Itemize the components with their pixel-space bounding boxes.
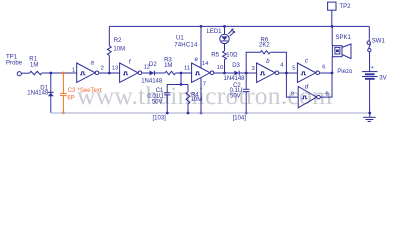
svg-text:*SeeText: *SeeText — [78, 88, 102, 94]
wire GND bottom rail — [51, 112, 370, 114]
diode D3 — [224, 63, 257, 82]
svg-text:R5: R5 — [211, 53, 219, 59]
svg-text:D2: D2 — [149, 62, 157, 68]
svg-text:+: + — [371, 65, 374, 71]
svg-text:10M: 10M — [113, 46, 125, 52]
svg-text:50V: 50V — [230, 93, 241, 99]
node junction battery rail — [368, 112, 371, 115]
svg-text:14: 14 — [202, 61, 209, 67]
resistor R6 — [246, 37, 286, 73]
capacitor C3 highlighted — [60, 72, 102, 115]
wire VCC top rail — [109, 25, 369, 27]
node junction TP2 rail — [331, 25, 334, 28]
capacitor C2 — [230, 73, 250, 113]
op-amp U1 gate c — [292, 58, 325, 83]
node junction R2 — [108, 72, 111, 75]
wire gate a to gate f — [99, 72, 120, 74]
svg-text:D3: D3 — [232, 63, 240, 69]
svg-text:13: 13 — [112, 66, 118, 72]
svg-text:11: 11 — [184, 65, 190, 71]
node junction piezo — [331, 72, 334, 75]
wire R3 to gate e — [176, 72, 192, 74]
op-amp U1 gate f — [112, 59, 150, 83]
svg-text:1N4148: 1N4148 — [27, 91, 49, 97]
svg-text:[103]: [103] — [153, 116, 167, 122]
switch SW1 — [367, 26, 385, 71]
svg-text:c: c — [305, 58, 309, 65]
svg-text:SW1: SW1 — [372, 38, 386, 44]
op-amp U1 gate e — [184, 56, 223, 88]
wire probe to R1 — [21, 72, 29, 74]
resistor R2 — [107, 26, 125, 73]
wire gate e to D3 — [214, 72, 235, 74]
wire R1 to gate a — [42, 72, 77, 74]
svg-text:1: 1 — [72, 68, 75, 74]
svg-text:LED1: LED1 — [207, 29, 223, 35]
svg-text:4: 4 — [280, 63, 284, 69]
probe terminal TP1 — [17, 72, 21, 76]
svg-text:R2: R2 — [114, 38, 122, 44]
svg-text:e: e — [195, 56, 199, 63]
node junction C2/R6 — [245, 72, 248, 75]
node junction pin14 rail — [200, 25, 203, 28]
node U1 labels — [174, 36, 198, 49]
battery 3V — [362, 65, 387, 113]
svg-text:6P: 6P — [67, 95, 74, 101]
op-amp U1 gate b — [252, 58, 285, 82]
node junction C2 rail — [245, 112, 248, 115]
svg-text:1N4148: 1N4148 — [141, 79, 163, 85]
svg-text:5: 5 — [292, 65, 295, 71]
svg-text:7: 7 — [203, 82, 206, 88]
op-amp U1 gate d — [291, 84, 329, 108]
wire to gate d input — [286, 73, 298, 97]
svg-text:8: 8 — [326, 91, 329, 97]
svg-text:[104]: [104] — [233, 116, 247, 122]
node junction C1 rail — [166, 112, 169, 115]
svg-text:6: 6 — [322, 65, 325, 71]
node junction D1 — [49, 72, 52, 75]
wire gate f to D2 — [142, 72, 150, 74]
svg-text:2K2: 2K2 — [259, 43, 270, 49]
svg-text:a: a — [91, 59, 95, 66]
node junction LED rail — [223, 25, 226, 28]
svg-text:1N4148: 1N4148 — [224, 76, 246, 82]
test point TP2 — [328, 2, 352, 26]
node junction R4 rail — [187, 112, 190, 115]
svg-text:C1: C1 — [156, 88, 164, 94]
svg-text:9: 9 — [291, 92, 294, 98]
svg-text:10Ω: 10Ω — [226, 53, 238, 59]
svg-text:1M: 1M — [30, 63, 38, 69]
resistor R5 — [211, 44, 238, 73]
svg-text:b: b — [266, 58, 270, 65]
svg-text:f: f — [129, 59, 132, 66]
diode D1 — [27, 73, 53, 113]
wire gate b to gate c — [279, 72, 298, 74]
ground — [363, 113, 376, 122]
node TP1 labels — [6, 54, 23, 66]
svg-text:10: 10 — [217, 65, 223, 71]
net label 104 — [233, 116, 247, 122]
svg-text:Piezo: Piezo — [337, 69, 353, 75]
svg-text:50V: 50V — [152, 99, 163, 105]
svg-text:2: 2 — [101, 65, 104, 71]
resistor R3 — [164, 57, 175, 74]
node junction gate d tap — [285, 72, 288, 75]
node junction pin7 rail — [200, 112, 203, 115]
wire pin 14 VCC — [200, 26, 202, 67]
svg-text:1M: 1M — [164, 63, 172, 69]
node junction R5 — [223, 72, 226, 75]
svg-text:TP1: TP1 — [6, 54, 18, 60]
wire split to C1 and R4 — [167, 73, 188, 86]
speaker SPK1 — [332, 26, 353, 74]
diode D2 — [141, 62, 165, 85]
capacitor C1 — [147, 85, 170, 113]
svg-text:TP2: TP2 — [340, 4, 352, 10]
svg-text:C3: C3 — [68, 88, 76, 94]
wire gate d out riser — [320, 73, 332, 97]
LED LED1 — [207, 26, 235, 43]
wire gate c out — [320, 72, 333, 74]
op-amp U1 gate a — [72, 59, 104, 82]
svg-text:U1: U1 — [176, 36, 184, 42]
resistor R4 — [186, 85, 202, 113]
svg-text:3V: 3V — [379, 75, 386, 81]
svg-text:d: d — [305, 84, 309, 91]
resistor R1 — [29, 57, 42, 75]
svg-text:SPK1: SPK1 — [336, 35, 352, 41]
net label 103 — [153, 116, 167, 122]
svg-text:Probe: Probe — [6, 61, 23, 67]
svg-text:3: 3 — [252, 66, 255, 72]
node junction C1/R4 — [180, 72, 183, 75]
svg-text:74HC14: 74HC14 — [174, 42, 198, 48]
wire pin 7 GND — [200, 78, 202, 113]
